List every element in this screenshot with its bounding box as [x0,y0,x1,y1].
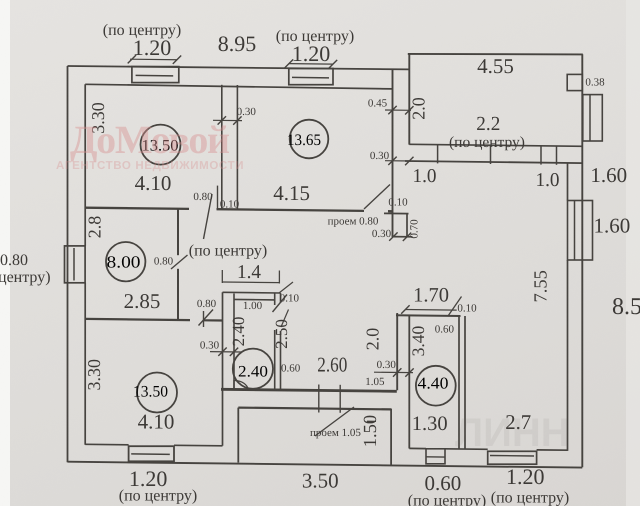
leader 0.10 room 4.40 [448,297,462,317]
door leaf, bottom-left room [199,310,214,326]
door swing arc, hall [233,380,235,391]
door leaf, porch opening [315,407,354,436]
door leaf, top-left room [204,194,213,239]
watermark bottom-right (faint) [455,411,570,455]
flue box 0.70 [384,212,409,214]
dim 0.30 gap ticks [385,160,411,162]
dim ticks 0.30/1.05 near room 4.40 [374,371,413,373]
paper grain [0,0,1,1]
dim line 1.4 with end ticks [222,281,279,284]
dim line 1.70 room 4.40 [405,309,456,312]
window 1.20 bottom-left [129,446,174,461]
wall: main body east [392,69,394,237]
room circle 13.65 [287,120,328,159]
wall: closet east, inner line [274,293,276,305]
wall: hall east [396,313,398,390]
wall: room 4.40 east, line 1 [458,316,460,449]
wall: left exterior, outer line [67,66,69,462]
wall: closet north, inner line [234,298,275,301]
room circle 13.50 top-left [141,125,181,165]
wall: bottom-left room east / closet west outer [222,292,224,446]
wall: right exterior, outer line [581,54,583,467]
door leaf, closet [273,295,288,313]
door threshold bottom-right [426,449,445,464]
wall: room 8.00 east [177,209,179,255]
door jamb tick, top-left room [217,186,219,209]
wall: south of top rooms [85,208,189,209]
door leaf, room 8.00 [171,255,188,269]
leader 0.10 closet [279,282,293,293]
leader 2.50 [281,310,289,328]
opening jamb ticks 1.05 porch [318,385,320,413]
window 1.20 top-left [132,67,179,83]
dim line 1.20 top-left [130,58,177,61]
wall: annex south, inner line [409,144,583,146]
paper left white strip [0,0,10,506]
dim ticks 0.30 flue box [389,232,397,240]
room circle 13.50 bottom-left [133,373,177,413]
window 1.60 annex east [583,95,603,141]
paper right lighter strip [626,0,640,506]
wall: divider between top rooms, left line [221,85,223,209]
wall: porch west [237,408,239,463]
wall: closet north, outer line [223,291,281,294]
room circle 4.40 [416,366,456,406]
annex south wall dividers [437,145,439,164]
wall: hall south [221,389,397,391]
wall: right exterior, inner line [567,163,569,201]
dim 0.30 divider ticks [213,119,242,121]
wall: annex west [408,54,410,145]
wall: room 4.40 east, line 2 [464,316,466,449]
wall: closet west inner [233,294,235,390]
dim line 1.20 top-middle [289,63,333,66]
door leaf, opening 0.80 room 13.65 [364,185,390,210]
dimension line: annex south 1.0/2.2/1.0 [405,161,583,163]
dim tick 1.50 porch [367,420,376,422]
wall: porch north [238,408,391,410]
wall: left exterior, inner line [84,84,86,246]
wall: bottom-right, inner line [409,447,426,449]
wall: porch east [390,409,392,465]
wall: bottom exterior, outer line [68,462,583,468]
room circle 2.40 [233,349,273,389]
wall: divider between top rooms, right line [236,85,238,209]
watermark DomOvoy [70,117,230,162]
wall: bottom-left, inner line [85,443,128,446]
window 1.60 east [568,201,593,261]
wall: main top, outer line [68,66,410,69]
dim 0.30 closet wall ticks [210,351,242,353]
room circle 8.00 [106,242,145,281]
wall: closet east, outer line [280,293,282,303]
watermark agency subtitle [56,160,244,172]
flue box 0.38 [567,74,582,90]
wall: room 4.40 west inner [408,315,410,448]
wall: main top, inner line [85,84,392,89]
wall: room 4.40 north [396,314,461,317]
dim 0.45 gap ticks [385,109,411,111]
wall: bottom-left room top [85,319,190,320]
window 1.20 top-middle [289,69,333,85]
wall: annex top [408,53,583,56]
window 0.80 left [65,246,86,283]
door jamb tick, bottom-left room [203,311,205,327]
window 1.20 bottom-right [488,451,537,464]
